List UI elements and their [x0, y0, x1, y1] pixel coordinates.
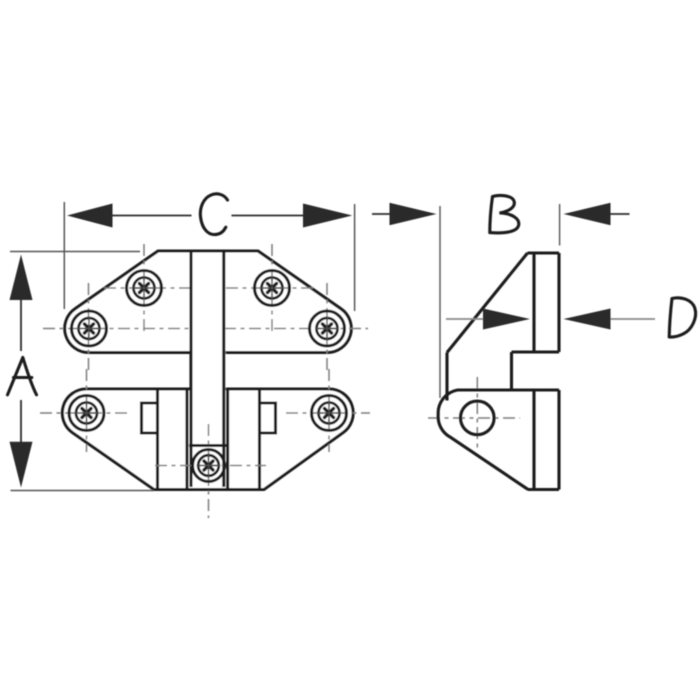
bottom plate outline [62, 389, 353, 490]
D right tail [611, 318, 656, 320]
upper plate left edge [532, 253, 535, 352]
A bottom extension line [11, 490, 155, 492]
B left extension line [439, 206, 441, 398]
letter A [8, 358, 37, 395]
slot left line [185, 390, 188, 488]
letter C [200, 194, 227, 235]
knuckle [438, 390, 528, 489]
B right tail [611, 213, 630, 215]
screw hole right (bottom plate) [312, 396, 347, 431]
right tab [260, 403, 276, 433]
top plate outline [65, 251, 351, 353]
bar white mask [190, 253, 226, 488]
bar left line [189, 251, 192, 487]
screw hole upper-left (top plate) [127, 271, 162, 306]
D left tail [446, 318, 484, 320]
screw hole lower-left (top plate) [72, 311, 107, 346]
dimension D [446, 298, 696, 337]
step vertical [510, 352, 513, 389]
knuckle hole [461, 401, 495, 435]
screws [69, 271, 347, 482]
A down arrow [10, 442, 33, 488]
A top extension line [10, 251, 140, 253]
horizontal y390 [457, 388, 559, 391]
left short edge [445, 353, 448, 401]
lower plate right edge [557, 390, 560, 490]
A up arrow [10, 255, 33, 301]
left tab [142, 403, 158, 433]
screw hole left (bottom plate) [69, 396, 104, 431]
A dimension line [20, 299, 22, 351]
centerlines front view [40, 244, 370, 452]
letter D [669, 298, 695, 337]
D right arrow [564, 309, 611, 330]
top edge [528, 251, 560, 254]
C dimension line [111, 215, 192, 217]
dimension A [8, 252, 155, 491]
dimension C [64, 194, 354, 311]
C left arrow [67, 204, 113, 228]
boss top line [189, 444, 227, 447]
B right arrow [564, 203, 611, 225]
screw hole bottom-center (bottom plate) [193, 450, 225, 482]
top edge redrawn [158, 249, 258, 252]
C right arrow [303, 204, 352, 228]
slot white mask [186, 391, 230, 488]
bar right line [222, 251, 225, 487]
letter B [490, 195, 519, 232]
B left arrow [390, 203, 437, 225]
B right extension line [559, 204, 561, 246]
screw hole lower-right (top plate) [310, 311, 345, 346]
screw hole upper-right (top plate) [255, 271, 290, 306]
C right extension line [354, 204, 356, 311]
bottom plate center section left line [156, 389, 159, 490]
B left tail [372, 213, 390, 215]
bottom plate center section right line [258, 389, 261, 490]
side view [438, 253, 559, 490]
D left arrow [483, 309, 530, 330]
bottom edge [528, 488, 560, 491]
dimension B [372, 195, 630, 398]
slot right line [226, 390, 229, 488]
C left extension line [63, 202, 65, 309]
slope [447, 253, 528, 353]
upper plate bottom [512, 350, 560, 353]
center hole centerlines [155, 424, 266, 518]
lower plate left edge [532, 390, 535, 490]
right edge upper [557, 253, 560, 352]
centerlines side view [428, 377, 520, 450]
